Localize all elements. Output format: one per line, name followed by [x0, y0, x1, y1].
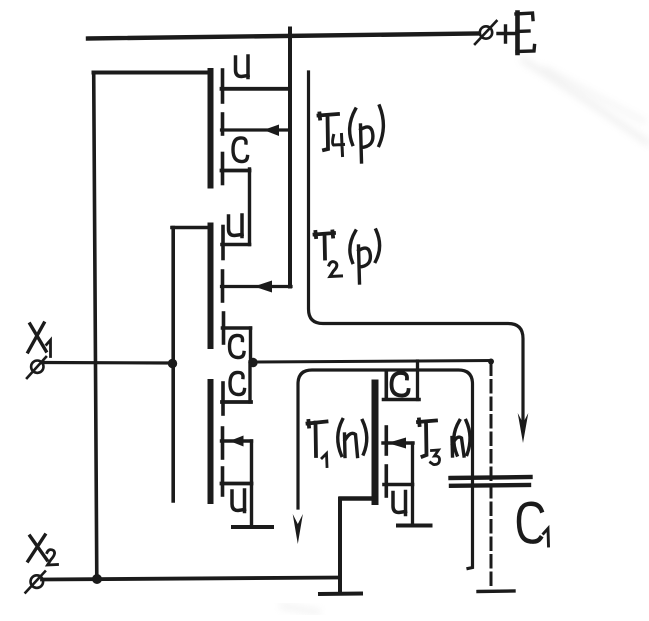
- wire X1 gate rail L: [172, 228, 211, 502]
- label T1(n): [308, 420, 367, 467]
- label X2: [28, 535, 58, 565]
- terminal +E circle-slash: [475, 21, 497, 44]
- label X1: [28, 323, 51, 357]
- scan smudge bottom: [282, 606, 318, 612]
- transistor T1 source electrode and lead: [222, 468, 252, 495]
- terminal X1 circle-slash: [27, 357, 46, 378]
- label T2(p): [315, 230, 380, 283]
- transistor T4 source electrode and lead: [222, 70, 289, 102]
- label c of T4: [233, 138, 248, 162]
- wire output-node curve around T1 with arrow down: [293, 370, 473, 569]
- node X1 gate-rail dot: [168, 359, 177, 368]
- label T4(p): [319, 106, 384, 162]
- label c of T1: [230, 372, 245, 394]
- label u of T4: [236, 56, 249, 78]
- node X2 junction dot: [92, 574, 102, 584]
- transistor T1 drain electrode and lead: [222, 362, 251, 414]
- wire X2 line: [42, 578, 339, 580]
- terminal X2 circle-slash: [26, 572, 46, 593]
- transistor T2 source electrode and lead: [222, 227, 250, 259]
- scan smudge top right: [523, 60, 648, 143]
- wire top-left branch from X2 rail to T4 gate: [94, 73, 211, 579]
- transistor T3 substrate electrode with arrow: [383, 427, 413, 524]
- transistor T3 drain electrode and lead: [384, 371, 420, 400]
- wire T3 gate to X2 branch: [340, 499, 376, 593]
- transistor T4 substrate electrode with arrow: [222, 114, 289, 136]
- wire +E drop to transistor column: [288, 29, 292, 287]
- transistor T2 drain electrode and lead: [223, 313, 251, 361]
- label T3(n): [418, 420, 470, 465]
- label C of T3: [392, 373, 409, 396]
- node X1 drain junction dot: [248, 358, 257, 367]
- node memory dashed line top: [488, 359, 494, 365]
- capacitor C1 bottom plate: [451, 483, 529, 488]
- label u of T3: [393, 492, 406, 515]
- transistor T1 substrate electrode with arrow: [222, 428, 252, 527]
- label u of T1: [232, 490, 245, 512]
- capacitor C1 top plate: [451, 477, 531, 478]
- transistor T4 gate bar: [208, 71, 214, 186]
- terminal bar below T1: [233, 525, 272, 529]
- wire +E top rail: [88, 34, 478, 39]
- terminal bar below T3: [398, 524, 431, 528]
- wire X1 line: [42, 361, 170, 365]
- transistor T4 drain electrode and lead: [222, 154, 250, 245]
- transistor T3 gate bar: [372, 383, 379, 502]
- label C1: [519, 504, 549, 546]
- wire T3 drain to X1 extension: [416, 361, 419, 400]
- label u of T2: [229, 215, 243, 237]
- label +E: [498, 13, 535, 54]
- wire T2 output curve to C1 with arrow: [309, 72, 529, 443]
- transistor T3 source electrode and lead: [384, 466, 413, 496]
- transistor T2 substrate electrode with arrow: [222, 271, 292, 301]
- wire X1 extension to memory node: [257, 361, 491, 363]
- transistor T2 gate bar: [208, 226, 214, 347]
- terminal bar below X2 branch: [320, 592, 361, 597]
- transistor T1 gate bar: [208, 382, 214, 501]
- dashed node line: [490, 363, 493, 585]
- label C of T2: [230, 335, 245, 357]
- terminal bar below dashed line: [478, 589, 514, 593]
